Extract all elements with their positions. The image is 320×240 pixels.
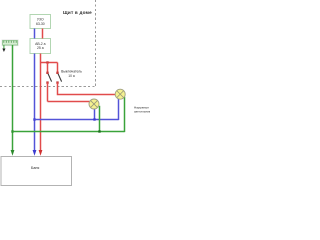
wire PE (green) main vertical bus to Баня [12,45,14,152]
label: Выключатель 10 а [61,70,82,78]
switch S2 lever [58,74,62,82]
wire N (blue) lamp EL1 drop [94,109,96,120]
svg-text:АВ-2 а: АВ-2 а [35,42,45,46]
switch S2 output contact dot [56,81,58,83]
svg-text:Щит в доме: Щит в доме [63,10,92,15]
arrow L into Баня [39,150,43,156]
wire L1 (red) horizontal to lamp EL1 [48,101,90,103]
switch S2 input contact dot [56,72,58,74]
switch S2 output wire down and right to lamp EL2 [58,83,116,95]
wire L (red) main vertical to Баня [40,63,42,152]
arrow N into Баня [33,150,37,156]
svg-text:Баня: Баня [31,166,39,170]
arrow PE into Баня [11,150,15,156]
junction dot N at lamp EL1 drop [93,118,95,120]
wire L (red) УЗО to АВ [42,29,44,39]
junction dot PE at lamp EL1 drop [98,130,100,132]
ground bus PE bar [2,40,18,46]
svg-text:10 а: 10 а [68,74,75,78]
lamp EL1 [89,99,99,109]
wire L (red) horizontal tee to switches [40,62,58,64]
switch S2 input drop [57,63,59,73]
wire N (blue) УЗО to АВ [34,29,36,39]
switch S1 lever [48,74,52,82]
earth electrode stub [3,45,5,49]
junction dot PE at green horizontal [11,130,13,132]
wire N (blue) lamp EL2 drop [118,99,120,120]
switch S1 input drop [47,63,49,73]
RCD U1: УЗО 63-30 box [30,15,51,29]
wire N (blue) horizontal to lamps [35,119,119,121]
building box: Баня [1,157,72,186]
svg-text:63-30: 63-30 [36,22,45,26]
wire L (red) АВ down to tee [40,54,42,63]
junction dot N at blue horizontal [33,118,35,120]
breaker Q1: АВ-2а 25а box [30,39,51,54]
svg-text:25 а: 25 а [37,46,44,50]
panel boundary dashed bottom edge [0,86,96,88]
panel boundary dashed right edge (Щит в доме) [95,0,97,86]
label: Наружные светильники [134,105,152,113]
switch S1 output contact dot [46,81,48,83]
wire N (blue) main vertical АВ to Баня [34,54,36,152]
switch S1 input contact dot [46,72,48,74]
earth arrow [2,49,5,53]
wire PE (green) lamp EL1 drop [99,106,101,132]
label: Щит в доме [63,10,92,15]
svg-text:светильники: светильники [134,109,150,113]
svg-text:УЗО: УЗО [37,18,44,22]
wire PE (green) lamp EL2 drop [124,97,126,132]
junction dot L tee at switch S1 [46,61,48,63]
wire PE (green) horizontal to lamps [13,131,125,133]
switch S1 output wire down [47,83,49,102]
lamp EL2 [115,89,125,99]
